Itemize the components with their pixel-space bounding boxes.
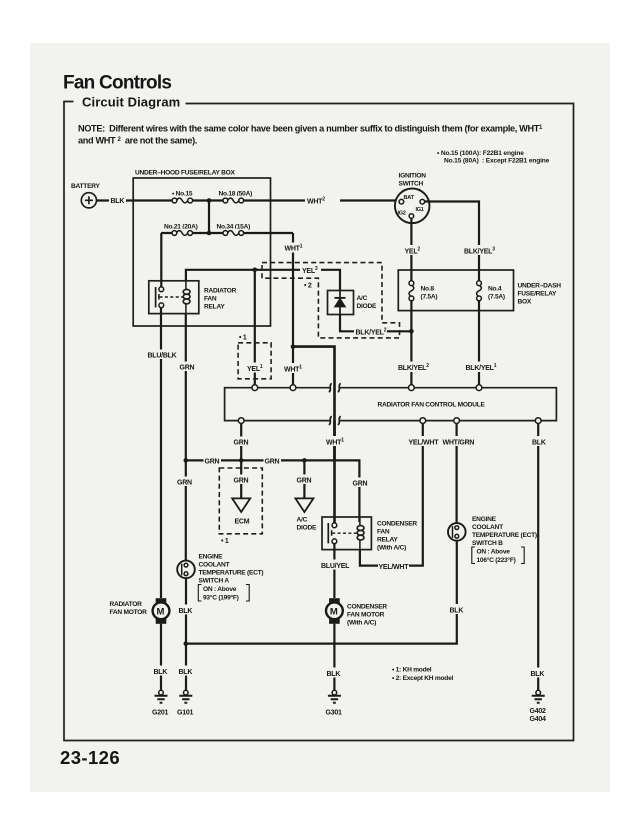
notes KH model <box>392 667 453 683</box>
svg-text:GRN: GRN <box>177 480 192 487</box>
under-dash fuse/relay box <box>398 270 561 311</box>
svg-text:BAT: BAT <box>404 195 415 201</box>
dashed option box *2 <box>262 263 400 338</box>
svg-text:IG2: IG2 <box>398 211 406 217</box>
svg-text:No.4: No.4 <box>488 286 502 293</box>
ground G402 G404 <box>530 690 546 723</box>
svg-text:(With A/C): (With A/C) <box>347 620 376 627</box>
svg-text:• 2: Except KH model: • 2: Except KH model <box>392 675 453 682</box>
svg-text:GRN: GRN <box>234 440 249 447</box>
label WHT2 <box>305 196 340 206</box>
svg-text:BLK: BLK <box>327 671 341 678</box>
svg-text:ON : Above: ON : Above <box>203 586 237 593</box>
svg-text:A/C: A/C <box>297 517 308 524</box>
svg-text:No.8: No.8 <box>421 286 435 293</box>
svg-text:SWITCH: SWITCH <box>399 181 424 188</box>
label YEL2 <box>403 245 421 256</box>
dashed option box *1 <box>238 335 271 379</box>
svg-text:BLK: BLK <box>450 608 464 615</box>
ECT switch A <box>177 561 195 579</box>
svg-text:M: M <box>330 607 338 618</box>
svg-text:• 1: • 1 <box>239 335 247 342</box>
label BLK condenser motor ground <box>326 668 343 679</box>
ground G201 <box>152 690 168 716</box>
wire GRN module to bus <box>240 424 242 461</box>
ECM arrow <box>232 498 250 525</box>
A/C diode arrow <box>295 498 317 531</box>
svg-text:TEMPERATURE (ECT): TEMPERATURE (ECT) <box>472 532 537 539</box>
node bus at ECM column <box>239 458 244 463</box>
label GRN in ECM box <box>233 475 250 485</box>
svg-text:RADIATOR FAN CONTROL MODULE: RADIATOR FAN CONTROL MODULE <box>378 402 486 409</box>
svg-text:DIODE: DIODE <box>297 525 317 532</box>
radiator fan relay <box>149 281 237 314</box>
svg-text:• 2: • 2 <box>304 283 312 290</box>
svg-text:BATTERY: BATTERY <box>71 183 101 190</box>
wire BLK module to ground G402 <box>537 424 539 691</box>
svg-text:FUSE/RELAY: FUSE/RELAY <box>518 291 558 298</box>
label BLU/BLK <box>147 350 177 360</box>
svg-text:FAN MOTOR: FAN MOTOR <box>110 609 148 616</box>
svg-text:BLK: BLK <box>532 440 546 447</box>
label BLK motor ground <box>153 666 170 677</box>
svg-text:BLK: BLK <box>179 608 193 615</box>
wire fuse row 1 <box>176 199 400 201</box>
svg-text:BLK/YEL2: BLK/YEL2 <box>398 363 429 372</box>
ground G101 <box>177 690 193 716</box>
svg-text:YEL/WHT: YEL/WHT <box>409 440 440 447</box>
label BLK <box>109 195 126 205</box>
svg-text:RADIATOR: RADIATOR <box>110 601 143 608</box>
wire YEL1 drop <box>254 270 256 388</box>
svg-text:SWITCH A: SWITCH A <box>199 578 230 585</box>
svg-text:BLU/BLK: BLU/BLK <box>148 353 177 360</box>
svg-text:BLK/YEL1: BLK/YEL1 <box>466 363 497 372</box>
svg-text:COOLANT: COOLANT <box>199 562 230 569</box>
svg-text:DIODE: DIODE <box>357 303 377 310</box>
svg-text:BLK: BLK <box>154 669 168 676</box>
svg-text:106°C (223°F): 106°C (223°F) <box>477 556 516 564</box>
svg-text:G404: G404 <box>530 716 546 723</box>
wire WHT/GRN module to ECT switch B <box>456 424 458 524</box>
svg-text:BLK: BLK <box>531 671 545 678</box>
ground G301 <box>326 690 342 716</box>
under-hood fuse/relay box <box>133 170 270 327</box>
svg-text:GRN: GRN <box>265 459 280 466</box>
svg-text:UNDER–DASH: UNDER–DASH <box>518 283 562 290</box>
svg-text:BLK/YEL2: BLK/YEL2 <box>356 328 387 337</box>
svg-text:BLK: BLK <box>179 669 193 676</box>
svg-text:• 1: • 1 <box>221 538 229 545</box>
svg-text:and WHT 2 are not the same).: and WHT 2 are not the same). <box>78 136 197 146</box>
svg-text:IGNITION: IGNITION <box>399 173 427 180</box>
svg-text:ECM: ECM <box>235 519 250 526</box>
fuse No.8 <box>406 281 437 301</box>
node junction row2 <box>207 231 212 236</box>
svg-text:FAN: FAN <box>377 529 390 536</box>
svg-text:YEL/WHT: YEL/WHT <box>379 564 410 571</box>
wire WHT1 drop from fuse row2 <box>292 233 294 388</box>
fuse No.18 <box>219 191 253 205</box>
svg-text:GRN: GRN <box>297 478 312 485</box>
condenser fan motor <box>326 598 387 626</box>
svg-text:CONDENSER: CONDENSER <box>377 521 417 528</box>
wire BLK radiator fan motor to G201 <box>160 624 162 691</box>
label WHT/GRN below module <box>442 436 475 447</box>
label YEL3 <box>300 265 321 276</box>
wire GRN bus <box>186 460 360 522</box>
svg-text:G101: G101 <box>177 710 193 717</box>
fuse No.34 <box>217 224 251 238</box>
label WHT1 above module <box>283 363 305 374</box>
frame of circuit diagram box <box>64 102 574 741</box>
label GRN inline bus 1 <box>204 456 222 466</box>
wire fuse row 2 <box>161 232 293 234</box>
node junction row1 <box>207 198 212 203</box>
svg-text:BLK: BLK <box>111 198 125 205</box>
fuse No.21 <box>164 224 198 238</box>
svg-text:SWITCH B: SWITCH B <box>472 540 503 547</box>
label GRN below module <box>233 437 250 447</box>
svg-text:RADIATOR: RADIATOR <box>204 288 237 295</box>
svg-text:GRN: GRN <box>205 459 220 466</box>
wire GRN to A/C diode arrow <box>303 460 305 498</box>
wire junction column between rows <box>208 201 210 234</box>
A/C diode <box>328 291 377 315</box>
node bus at ECT-A column <box>184 458 189 463</box>
wire relay contact feed from fuse row2 <box>160 233 162 287</box>
wire GRN relay to ECT switch A <box>185 313 187 561</box>
wire BLU/BLK relay to radiator fan motor <box>160 308 162 598</box>
node bus at A/C diode arrow column <box>302 458 307 463</box>
svg-text:FAN: FAN <box>204 296 217 303</box>
node YEL3 / YEL1 junction <box>253 268 258 273</box>
module top connectors <box>252 385 482 391</box>
fuse No.4 <box>474 281 505 301</box>
svg-text:G402: G402 <box>530 708 546 715</box>
note text <box>78 124 543 146</box>
svg-text:IG1: IG1 <box>416 207 424 213</box>
label WHT1 upper <box>284 243 306 253</box>
svg-text:• 1: KH model: • 1: KH model <box>392 667 432 674</box>
svg-text:FAN MOTOR: FAN MOTOR <box>347 612 385 619</box>
label BLU/YEL <box>321 560 351 571</box>
label WHT1 below module <box>325 436 347 447</box>
wire ignition IG2 down YEL2 <box>410 219 412 270</box>
svg-text:No.15 (80A) : Except F22B1 en: No.15 (80A) : Except F22B1 engine <box>444 158 550 165</box>
wire GRN into ECM <box>240 460 242 498</box>
wire BLK/YEL2 from diode <box>340 315 411 332</box>
svg-text:UNDER–HOOD FUSE/RELAY BOX: UNDER–HOOD FUSE/RELAY BOX <box>135 170 235 177</box>
label BLK under ECT-B <box>449 604 466 615</box>
radiator fan control module <box>225 383 557 425</box>
label BLK/YEL2 above module <box>397 362 430 373</box>
svg-text:WHT/GRN: WHT/GRN <box>443 440 475 447</box>
label GRN above A/C diode arrow <box>296 475 313 485</box>
svg-text:GRN: GRN <box>234 478 249 485</box>
label GRN under relay <box>179 362 196 372</box>
svg-text:M: M <box>157 607 165 618</box>
label BLK under ECT-A <box>178 605 195 616</box>
ECM dashed box <box>219 468 262 534</box>
svg-text:RELAY: RELAY <box>377 537 398 544</box>
svg-text:G201: G201 <box>152 710 168 717</box>
svg-text:93°C (199°F): 93°C (199°F) <box>203 594 239 602</box>
wire BLU/YEL condenser relay to motor <box>333 544 335 598</box>
ECT switch B label <box>472 516 537 564</box>
ignition switch <box>395 173 430 224</box>
wire BLK battery to under-hood fuse box <box>97 199 176 201</box>
label BLK/YEL3 <box>463 245 496 256</box>
module bottom connectors <box>238 418 541 424</box>
label BLK/YEL1 above module <box>464 362 497 373</box>
wire ignition IG1 to BLK/YEL3 drop <box>425 202 479 271</box>
svg-text:(7.5A): (7.5A) <box>488 294 505 301</box>
label BLK right column ground <box>530 668 547 679</box>
wire BLK/YEL1 vertical (fuse No.4 to module) <box>478 270 480 388</box>
condenser fan relay <box>322 517 417 552</box>
svg-text:BLK/YEL3: BLK/YEL3 <box>464 247 495 256</box>
label YEL/WHT below module <box>408 436 439 447</box>
svg-text:Fan Controls: Fan Controls <box>63 73 171 94</box>
svg-text:G301: G301 <box>326 710 342 717</box>
svg-text:GRN: GRN <box>180 365 195 372</box>
svg-text:GRN: GRN <box>353 481 368 488</box>
label GRN right column <box>352 478 369 488</box>
label YEL1 <box>246 363 265 374</box>
ECT switch A label <box>198 554 263 602</box>
note No.15 fuse variants <box>437 150 550 165</box>
wire BLK ECT-A to ground bus <box>185 578 187 690</box>
wire WHT1 module to condenser relay <box>333 421 336 523</box>
node BLK/YEL2 junction <box>409 329 414 334</box>
label YEL/WHT inline horizontal <box>378 561 409 572</box>
svg-text:TEMPERATURE (ECT): TEMPERATURE (ECT) <box>199 570 264 577</box>
wire BLK/YEL2 vertical (fuse No.8 to module) <box>410 270 412 388</box>
wire BLK ECT-B to ground bus <box>186 541 457 644</box>
ECT switch B <box>448 523 466 541</box>
wire BLK condenser motor to G301 <box>333 624 335 691</box>
wire WHT1 branch to pass-through column <box>293 347 335 461</box>
label BLK/YEL2 inline <box>354 326 387 337</box>
svg-text:ENGINE: ENGINE <box>472 516 497 523</box>
label GRN below bus left <box>177 477 194 487</box>
svg-text:ON : Above: ON : Above <box>477 549 511 556</box>
svg-text:A/C: A/C <box>357 295 368 302</box>
svg-text:NOTE: Different wires with th: NOTE: Different wires with the same colo… <box>78 124 543 134</box>
svg-text:ENGINE: ENGINE <box>199 554 224 561</box>
svg-text:CONDENSER: CONDENSER <box>347 604 387 611</box>
svg-text:• No.15 (100A): F22B1 engine: • No.15 (100A): F22B1 engine <box>437 150 524 157</box>
radiator fan motor <box>110 598 170 624</box>
svg-text:23-126: 23-126 <box>60 747 120 768</box>
svg-text:Circuit Diagram: Circuit Diagram <box>82 95 180 110</box>
node WHT1 branch junction <box>291 344 296 349</box>
fuse No.15 <box>172 191 193 205</box>
node ground bus at ECT-A wire <box>184 641 189 646</box>
svg-text:(With A/C): (With A/C) <box>377 545 406 552</box>
svg-text:BLU/YEL: BLU/YEL <box>321 563 350 570</box>
wire relay coil top YEL3 <box>186 270 340 291</box>
svg-text:(7.5A): (7.5A) <box>421 294 438 301</box>
label BLK below module <box>531 436 548 447</box>
wire YEL/WHT module down <box>360 424 423 566</box>
svg-text:RELAY: RELAY <box>204 304 225 311</box>
label BLK ECT-A ground <box>178 666 195 677</box>
battery <box>71 183 101 208</box>
label GRN inline bus 2 <box>264 456 282 466</box>
svg-text:COOLANT: COOLANT <box>472 524 503 531</box>
svg-text:BOX: BOX <box>518 299 532 306</box>
